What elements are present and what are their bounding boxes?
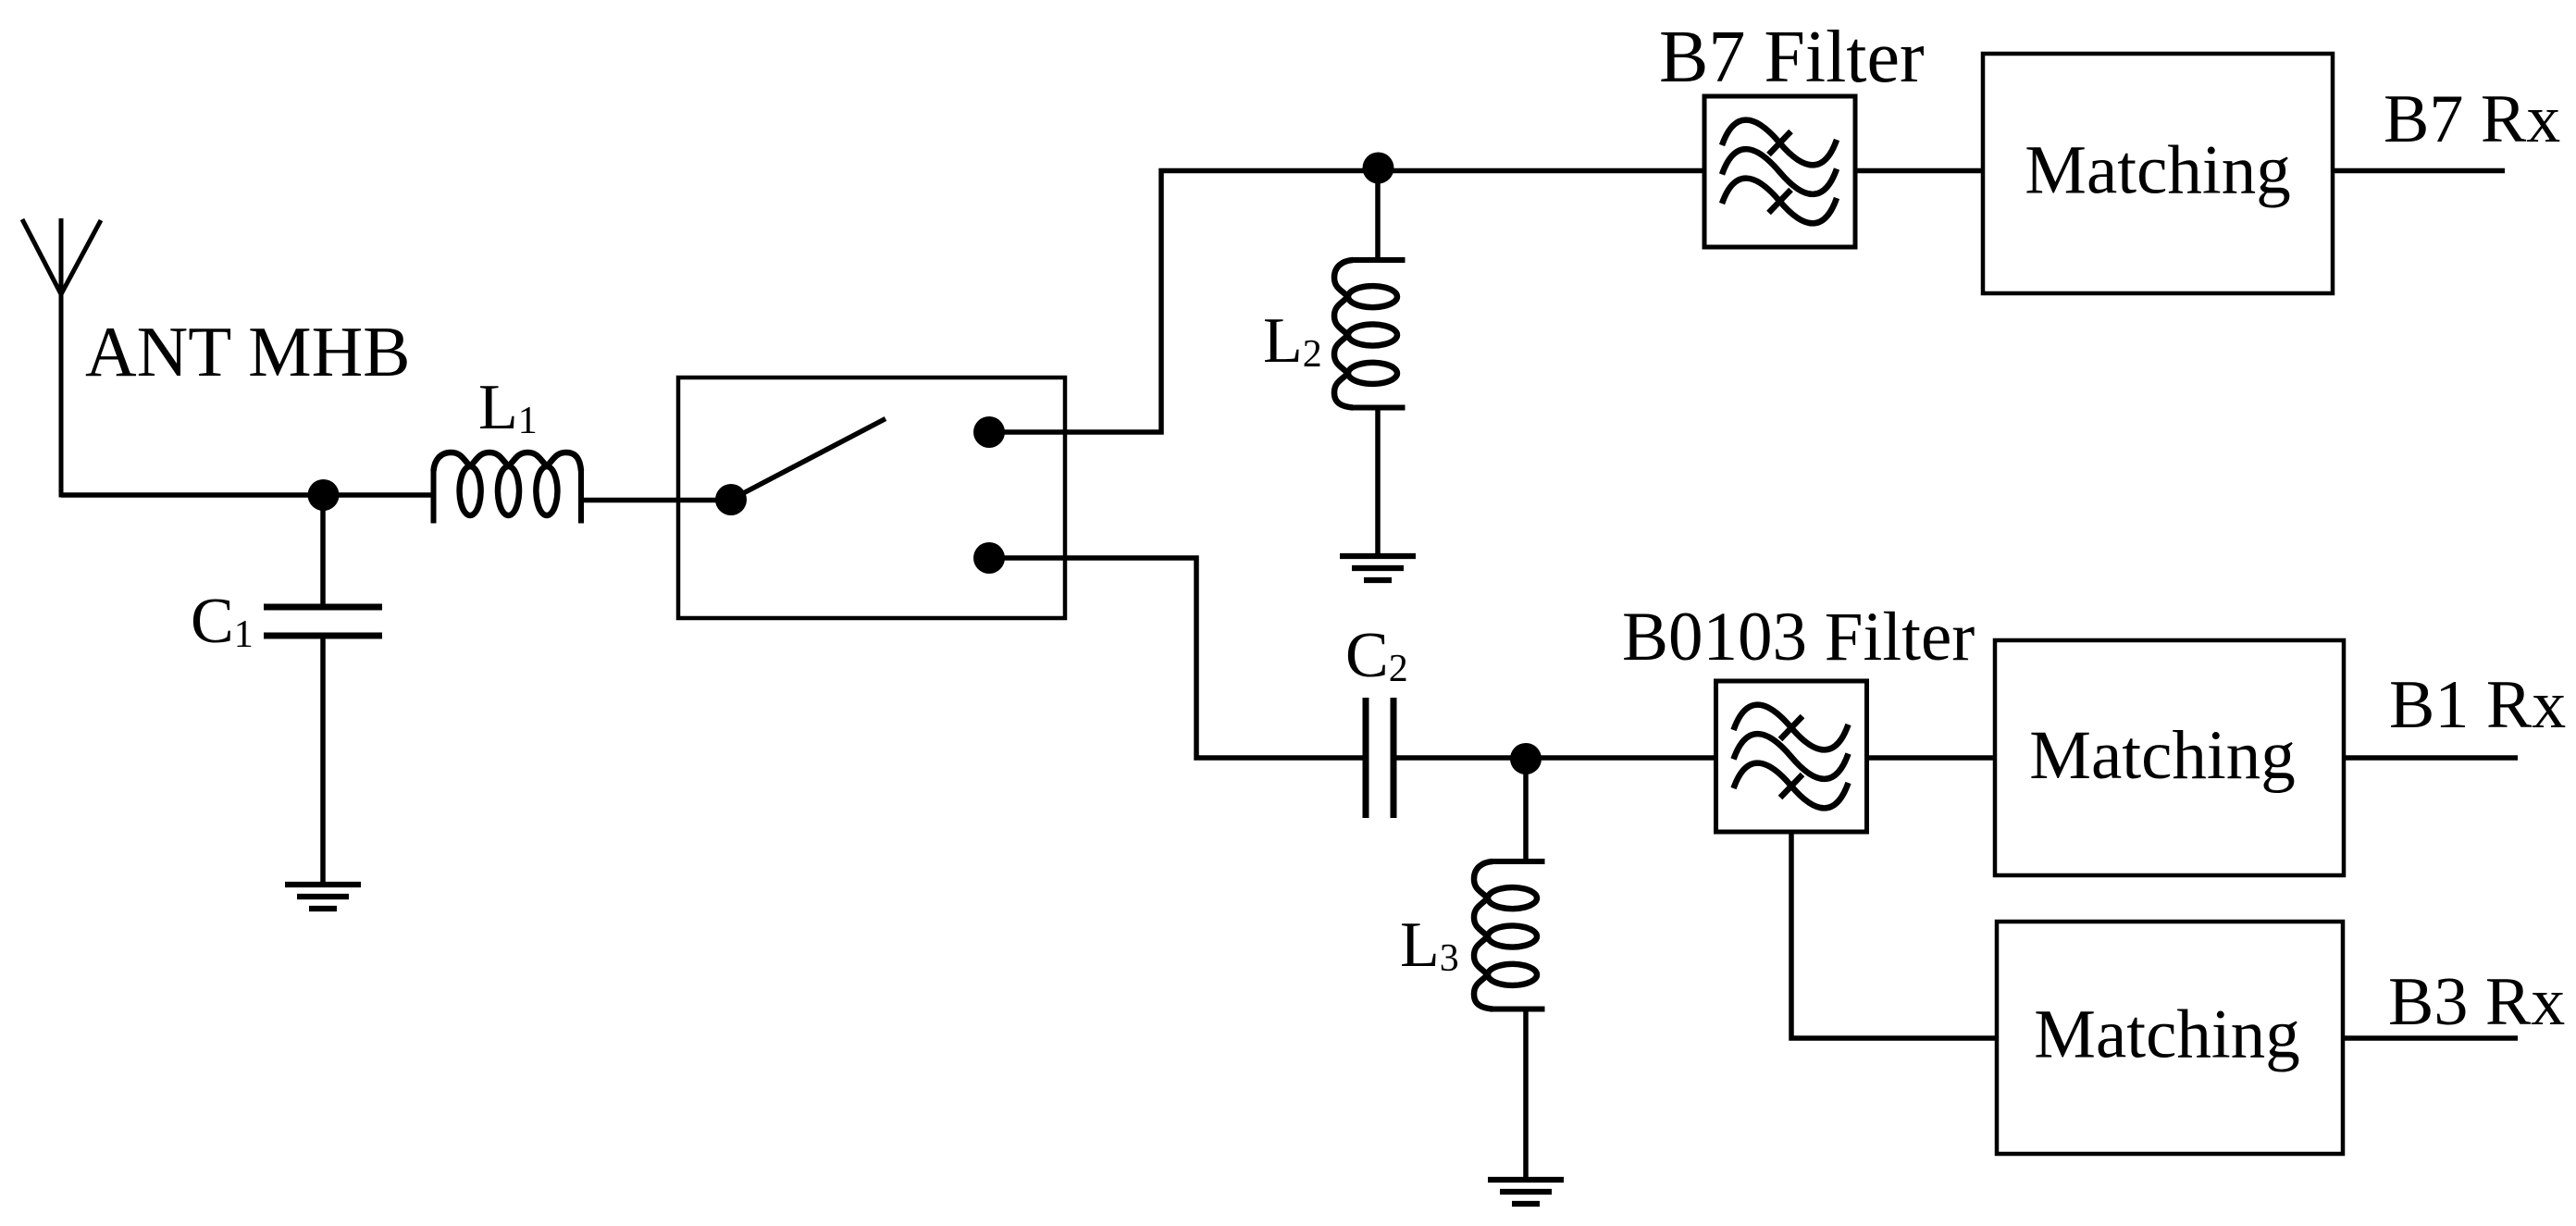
wire C1 to ground	[320, 636, 326, 885]
inductor L3	[1474, 861, 1545, 1009]
wire node C down to L3	[1523, 758, 1529, 861]
matching box B7	[1983, 54, 2333, 293]
wire top throw to corner	[990, 171, 1704, 433]
switch box (SPDT)	[678, 378, 1065, 618]
svg-text:L1: L1	[478, 372, 538, 443]
svg-text:C1: C1	[191, 586, 254, 657]
wire C2 to filter	[1397, 755, 1716, 761]
inductor L2	[1334, 260, 1406, 408]
svg-text:Matching: Matching	[2025, 132, 2290, 209]
wire L2 to ground	[1375, 408, 1381, 556]
matching box B3	[1997, 922, 2343, 1154]
B0103 filter box	[1716, 681, 1867, 832]
node C (junction dot)	[1510, 743, 1542, 774]
svg-text:L3: L3	[1400, 910, 1459, 981]
B7 filter box	[1704, 96, 1855, 247]
matching box B1	[1995, 640, 2344, 875]
wire B0103 filter to matching B3	[1791, 832, 1997, 1038]
wire node to C1	[320, 495, 326, 607]
node A (junction dot)	[308, 479, 340, 511]
wire L1 to switch	[581, 498, 731, 503]
wire filter to matching (B7)	[1855, 168, 1983, 174]
wire B3 Rx out	[2343, 1035, 2518, 1041]
svg-text:B7 Filter: B7 Filter	[1659, 17, 1925, 98]
wire B7 Rx out	[2333, 168, 2505, 174]
svg-text:B3 Rx: B3 Rx	[2388, 964, 2565, 1040]
svg-text:ANT MHB: ANT MHB	[85, 312, 411, 391]
switch arm	[731, 419, 885, 501]
wire bottom throw to C2	[990, 558, 1363, 758]
svg-text:L2: L2	[1263, 305, 1322, 377]
svg-text:Matching: Matching	[2029, 717, 2295, 794]
wire node B down to L2	[1375, 171, 1381, 261]
svg-text:B7 Rx: B7 Rx	[2384, 81, 2560, 157]
svg-text:B0103 Filter: B0103 Filter	[1622, 599, 1975, 675]
switch throw dot (top)	[973, 416, 1005, 448]
wire antenna to L1	[61, 492, 434, 498]
ground (L3)	[1488, 1180, 1564, 1204]
switch pole dot	[715, 484, 747, 515]
svg-text:Matching: Matching	[2034, 997, 2299, 1073]
antenna ANT MHB	[22, 218, 101, 498]
switch throw dot (bottom)	[973, 542, 1005, 574]
inductor L1	[434, 452, 582, 524]
wire L3 to ground	[1523, 1009, 1529, 1180]
capacitor C1	[264, 607, 382, 636]
ground (L2)	[1340, 556, 1416, 580]
svg-text:B1 Rx: B1 Rx	[2389, 667, 2566, 743]
wire filter to matching (B1)	[1867, 755, 1995, 761]
wire B1 Rx out	[2344, 755, 2518, 761]
svg-text:C2: C2	[1345, 620, 1408, 691]
node B (top junction dot)	[1363, 153, 1394, 184]
capacitor C2	[1366, 698, 1393, 818]
ground (C1)	[285, 885, 361, 909]
